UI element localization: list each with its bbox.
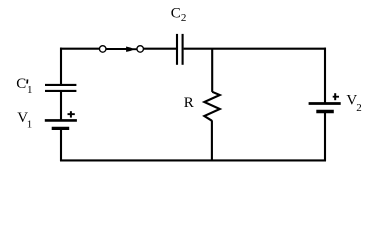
svg-text:R: R [184,95,194,111]
battery V2 positive plate [309,102,341,105]
wire top-left segment [60,48,100,50]
battery V1 positive plate [45,119,77,122]
wire R branch top [211,49,213,92]
label C'1 prime tick [26,79,28,83]
wire right branch top (to V2) [324,48,326,104]
svg-text:C2: C2 [171,5,187,24]
wire R-to-bottom segment [211,120,213,161]
wire C'1-to-V1 segment [60,92,62,120]
switch S1 contact circle right [137,46,144,53]
svg-text:V1: V1 [17,110,32,131]
wire left branch top (to C'1) [60,48,62,84]
wire top-right segment [184,48,326,50]
bottom wire [60,159,326,161]
wire V1-to-bottom segment [60,130,62,161]
battery V2 plus sign [333,93,339,100]
wire arrow-to-circle segment [132,48,137,50]
switch S1 contact circle left [99,46,106,53]
svg-text:V2: V2 [346,93,361,115]
switch closing arrow [126,47,133,52]
wire switch-to-C2 segment [144,48,177,50]
svg-text:1: 1 [27,84,33,96]
wire switch middle segment [106,48,127,50]
battery V1 plus sign [68,111,75,117]
resistor R zigzag [204,92,220,121]
wire V2-to-bottom segment [324,113,326,161]
capacitor C'1 top plate [45,84,76,86]
battery V1 negative plate [52,127,69,130]
battery V2 negative plate [316,110,334,113]
capacitor C2 left plate [176,34,178,65]
capacitor C'1 bottom plate [45,90,76,92]
svg-text:C: C [16,76,26,92]
capacitor C2 right plate [182,34,184,65]
